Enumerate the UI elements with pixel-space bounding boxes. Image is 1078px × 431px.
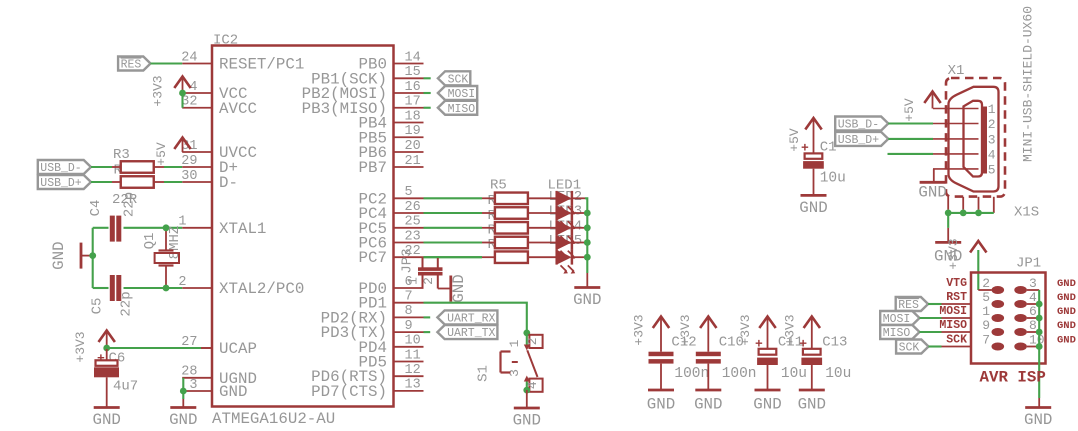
JP1 pin 9 MISO: [939, 318, 1004, 336]
svg-text:USB_D+: USB_D+: [838, 134, 880, 147]
svg-text:VTG: VTG: [946, 277, 967, 290]
ground GND at C13: [799, 389, 825, 392]
junction XTAL2: [163, 285, 170, 292]
svg-text:1: 1: [406, 277, 421, 285]
junction XTAL1: [163, 224, 170, 231]
IC2 pin 2 XTAL2/PC0: [178, 275, 304, 298]
svg-text:PD7(CTS): PD7(CTS): [311, 383, 387, 401]
junction VCC: [179, 90, 186, 97]
junction X1S 2: [960, 210, 967, 217]
svg-text:100n: 100n: [674, 366, 709, 382]
wire MISO: [424, 107, 431, 109]
ground GND at JP1: [1025, 406, 1051, 409]
svg-text:22p: 22p: [121, 192, 137, 217]
svg-text:JP3: JP3: [400, 248, 416, 273]
IC2 pin 31 UVCC: [181, 139, 257, 162]
svg-text:3: 3: [1029, 276, 1037, 291]
junction UCAP: [103, 345, 110, 352]
wire LED cathode bus: [585, 198, 587, 287]
wire MOSI: [424, 92, 431, 94]
svg-text:15: 15: [405, 65, 421, 80]
supply +3V3 at VCC: [151, 75, 191, 106]
svg-text:+5V: +5V: [787, 128, 802, 152]
svg-text:10: 10: [405, 334, 421, 349]
svg-text:C4: C4: [88, 200, 104, 217]
connector X1 dashed boundary: [946, 78, 1005, 197]
JP1 pin 1 MOSI: [939, 304, 1004, 322]
supply +3V3 at C12: [632, 314, 670, 345]
svg-text:USB_D-: USB_D-: [838, 119, 879, 132]
supply +3V3 at UCAP: [73, 331, 115, 363]
LED LED3: [557, 220, 585, 244]
wire pin to R8: [424, 241, 495, 243]
IC2 pin 18 PB4: [359, 109, 424, 132]
svg-text:GND: GND: [647, 396, 675, 414]
svg-text:8: 8: [405, 304, 413, 319]
connector X1 inner shell: [964, 101, 983, 177]
svg-text:5: 5: [988, 162, 996, 177]
wire USB_D- to R3: [91, 166, 112, 168]
svg-text:SCK: SCK: [448, 73, 469, 86]
resistor R8: [495, 237, 528, 249]
svg-text:UART_RX: UART_RX: [447, 312, 495, 325]
svg-text:7: 7: [405, 290, 413, 305]
wire pin to R6: [424, 212, 495, 214]
svg-text:29: 29: [181, 154, 197, 169]
X1 pin 4: [933, 147, 996, 162]
svg-text:GND: GND: [1024, 411, 1052, 426]
svg-text:SCK: SCK: [899, 342, 920, 355]
ground GND at C11: [755, 389, 781, 392]
svg-text:7: 7: [982, 333, 990, 348]
wire R9 to LED5: [528, 256, 557, 258]
svg-text:GND: GND: [50, 241, 68, 269]
wire SCK to JP1: [929, 345, 942, 347]
svg-text:10u: 10u: [825, 366, 851, 382]
wire SCK: [424, 77, 431, 79]
wire MOSI to JP1: [920, 317, 942, 319]
IC2 pin 4 VCC: [182, 80, 247, 103]
IC2 pin 7 PD1: [359, 290, 424, 313]
net flag MOSI at JP1: [880, 311, 919, 325]
supply +3V3 at C10: [678, 314, 717, 345]
svg-text:17: 17: [405, 95, 421, 110]
svg-text:14: 14: [405, 50, 421, 65]
svg-text:PB7: PB7: [359, 159, 387, 177]
svg-text:12: 12: [405, 363, 421, 378]
wire XTAL2 row right: [124, 287, 183, 289]
svg-text:MISO: MISO: [883, 327, 911, 340]
svg-text:USB_D-: USB_D-: [40, 162, 81, 175]
svg-text:26: 26: [405, 200, 421, 215]
svg-text:R5: R5: [490, 177, 507, 193]
LED LED5: [557, 250, 585, 274]
junction JP1 GND bus: [1036, 301, 1043, 308]
svg-text:XTAL1: XTAL1: [219, 220, 266, 238]
supply +3V3 at C11: [738, 314, 776, 345]
svg-text:C13: C13: [822, 335, 847, 351]
junction GND pin: [180, 388, 187, 395]
junction S1 bottom: [523, 387, 530, 394]
svg-text:RST: RST: [946, 291, 967, 304]
junction S1 top: [523, 330, 530, 337]
supply +3V3 at JP1: [946, 238, 987, 269]
IC2 pin 25 PC5: [359, 215, 424, 238]
svg-text:13: 13: [405, 378, 421, 393]
wire +3V3 to JP1 VTG: [978, 250, 991, 290]
wire R7 to LED3: [528, 227, 557, 229]
wire UART_TX: [424, 331, 431, 333]
wire pin to R7: [424, 227, 495, 229]
resistor R3: [112, 147, 154, 173]
crystal Q1: [142, 226, 183, 287]
net flag SCK at JP1: [896, 340, 928, 354]
svg-text:RESET/PC1: RESET/PC1: [219, 56, 304, 74]
IC2 pin 29 D+: [181, 154, 238, 177]
X1 pin 2: [933, 117, 996, 132]
svg-text:MINI-USB-SHIELD-UX60: MINI-USB-SHIELD-UX60: [1020, 6, 1035, 162]
ground GND at LEDs: [574, 286, 600, 289]
IC2 pin 3 GND: [182, 378, 247, 401]
svg-text:+3V3: +3V3: [678, 314, 693, 345]
ground GND at C1: [801, 194, 827, 197]
IC2 pin 9 PD3(TX): [321, 319, 424, 342]
wire USB_D+ to X1 pin3: [888, 138, 933, 140]
svg-text:AVCC: AVCC: [219, 100, 257, 118]
svg-text:GND: GND: [1057, 320, 1076, 332]
capacitor C12: [649, 318, 710, 390]
net flag USB_D- right: [835, 117, 888, 131]
junction JP1 GND bus: [1036, 329, 1043, 336]
LED LED2: [557, 206, 585, 230]
IC2 pin 28 UGND: [181, 365, 257, 388]
capacitor C6: [94, 349, 138, 408]
resistor R6: [495, 207, 528, 219]
junction JP1 GND bus: [1036, 343, 1043, 350]
svg-text:32: 32: [181, 95, 197, 110]
wire pin to R5: [424, 197, 495, 199]
ground GND at crystal: [50, 241, 93, 269]
svg-text:+5V: +5V: [154, 142, 169, 166]
ground GND at X1S: [935, 241, 961, 244]
supply +5V at UVCC: [154, 138, 191, 166]
net flag MISO at JP1: [880, 325, 919, 339]
JP1 pin 8 GND: [1014, 318, 1076, 336]
IC2 pin 12 PD6(RTS): [311, 363, 423, 386]
JP1 pin 10 GND: [1014, 333, 1076, 351]
IC2 pin 11 PD5: [359, 348, 424, 371]
svg-text:21: 21: [405, 154, 421, 169]
IC2 pin 14 PB0: [359, 50, 424, 73]
capacitor C11: [755, 318, 807, 390]
svg-text:AVR ISP: AVR ISP: [980, 369, 1046, 387]
junction LED cathode: [584, 239, 591, 246]
net flag MISO: [438, 101, 477, 115]
wire USB_D+ to R4: [91, 181, 112, 183]
X1 pin 1: [933, 102, 996, 117]
wire left vertical: [92, 228, 94, 288]
IC2 pin 5 PC2: [359, 185, 424, 208]
wire UART_RX: [424, 316, 431, 318]
net flag UART_RX: [437, 310, 497, 324]
svg-text:1: 1: [982, 304, 990, 319]
wire UCAP: [107, 347, 212, 349]
wire UGND jog: [182, 378, 184, 408]
svg-text:GND: GND: [573, 291, 601, 309]
svg-text:11: 11: [405, 348, 421, 363]
wire X1S to GND: [947, 213, 949, 243]
ground GND at C6: [94, 406, 120, 409]
ground GND at IC: [170, 406, 196, 409]
svg-text:GND: GND: [513, 412, 541, 427]
net flag USB_D+ left: [38, 175, 91, 189]
JP1 pin 2 VTG: [946, 276, 1004, 294]
svg-text:XTAL2/PC0: XTAL2/PC0: [219, 280, 304, 298]
svg-text:2: 2: [988, 117, 996, 132]
svg-text:2: 2: [982, 276, 990, 291]
IC2 pin 15 PB1(SCK): [311, 65, 423, 88]
svg-text:ATMEGA16U2-AU: ATMEGA16U2-AU: [212, 410, 335, 426]
resistor R9: [495, 251, 528, 263]
IC2 pin 13 PD7(CTS): [311, 378, 423, 401]
junction crystal gnd: [89, 252, 96, 259]
svg-text:X1: X1: [948, 63, 965, 79]
svg-text:UCAP: UCAP: [219, 340, 257, 358]
ground GND at JP3: [449, 276, 452, 302]
svg-text:3: 3: [189, 378, 197, 393]
JP1 pin 3 GND: [1014, 276, 1076, 294]
IC2 pin 24 RESET/PC1: [181, 50, 304, 73]
wire X1 pin5 to GND: [933, 169, 935, 182]
net flag USB_D+ right: [835, 132, 888, 146]
svg-text:+3V3: +3V3: [632, 314, 647, 345]
wire VCC to AVCC: [181, 92, 183, 108]
LED LED1: [557, 191, 585, 215]
ground GND at C10: [695, 389, 721, 392]
wire C5 left: [93, 287, 109, 289]
jumper JP3: [400, 248, 450, 288]
wire XTAL1 row: [124, 227, 183, 229]
svg-text:+5V: +5V: [902, 98, 917, 122]
svg-text:GND: GND: [219, 383, 247, 401]
svg-text:+3V3: +3V3: [738, 314, 753, 345]
ground GND at C12: [648, 389, 674, 392]
junction X1S 1: [945, 210, 952, 217]
svg-text:6: 6: [1029, 304, 1037, 319]
net flag RES: [118, 57, 150, 72]
svg-text:GND: GND: [1057, 306, 1076, 318]
svg-text:+3V3: +3V3: [151, 75, 166, 106]
capacitor C10: [696, 318, 757, 390]
wire X1S bus: [948, 212, 994, 214]
junction LED cathode: [584, 254, 591, 261]
svg-text:GND: GND: [92, 411, 120, 426]
connector X1 labels: [948, 6, 1036, 162]
svg-text:3: 3: [988, 132, 996, 147]
IC IC2 ATMEGA16U2 body: [212, 33, 394, 407]
svg-text:20: 20: [405, 139, 421, 154]
X1 pin 3: [933, 132, 996, 147]
IC2 pin 32 AVCC: [181, 95, 257, 118]
svg-text:18: 18: [405, 109, 421, 124]
svg-text:IC2: IC2: [213, 33, 238, 49]
wire R3 to pin29: [153, 166, 182, 168]
IC2 pin 16 PB2(MOSI): [302, 80, 424, 103]
IC2 pin 30 D-: [181, 169, 238, 192]
IC2 pin 20 PB6: [359, 139, 424, 162]
svg-text:1: 1: [507, 339, 522, 347]
wire pin7 to S1: [424, 303, 527, 345]
header JP1 body: [971, 256, 1046, 364]
IC2 pin 21 PB7: [359, 154, 424, 177]
svg-text:4u7: 4u7: [113, 379, 138, 395]
IC2 pin 1 XTAL1: [178, 215, 266, 238]
junction JP1 GND bus: [1036, 315, 1043, 322]
resistor R7: [495, 222, 528, 234]
connector X1 outer shell: [949, 87, 999, 192]
svg-text:4: 4: [988, 147, 996, 162]
JP1 pin 5 RST: [942, 290, 1005, 308]
svg-text:C5: C5: [90, 298, 106, 315]
svg-text:SCK: SCK: [946, 334, 967, 347]
ground GND at X1 pin5: [920, 181, 946, 184]
IC2 pin 27 UCAP: [181, 335, 257, 358]
svg-text:9: 9: [982, 318, 990, 333]
svg-text:9: 9: [405, 319, 413, 334]
svg-text:+3V3: +3V3: [73, 331, 88, 362]
JP1 pin 6 GND: [1014, 304, 1076, 322]
wire pin to R9: [424, 256, 495, 258]
capacitor C1: [801, 120, 846, 196]
svg-text:S1: S1: [476, 365, 492, 382]
net flag USB_D- left: [38, 160, 91, 174]
svg-text:8: 8: [1029, 318, 1037, 333]
supply +5V at X1: [902, 92, 941, 122]
svg-text:UART_TX: UART_TX: [447, 327, 495, 340]
resistor R4: [112, 176, 154, 188]
svg-text:GND: GND: [1057, 278, 1076, 290]
wire R4 to pin30: [153, 181, 182, 183]
wire RES to JP1: [928, 303, 941, 305]
svg-text:10u: 10u: [781, 366, 807, 382]
svg-text:23: 23: [405, 229, 421, 244]
wire C4 left: [93, 227, 109, 229]
connector X1 tongue: [983, 107, 987, 174]
IC2 pin 26 PC4: [359, 200, 424, 223]
svg-text:16: 16: [405, 80, 421, 95]
svg-text:GND: GND: [918, 183, 946, 201]
svg-text:5: 5: [982, 290, 990, 305]
X1 shield pads X1S: [948, 197, 1039, 221]
wire USB_D- to X1 pin2: [888, 122, 933, 124]
LED LED4: [557, 235, 585, 259]
svg-text:24: 24: [181, 50, 197, 65]
JP1 pin 4 GND: [1014, 290, 1076, 308]
wire R8 to LED4: [528, 242, 557, 244]
capacitor C13: [799, 318, 851, 390]
switch S1: [476, 335, 543, 392]
svg-text:1: 1: [988, 102, 996, 117]
junction LED cathode: [584, 224, 591, 231]
wire R6 to LED2: [528, 212, 557, 214]
resistor R5: [495, 193, 528, 205]
junction X1S 3: [975, 210, 982, 217]
svg-text:USB_D+: USB_D+: [40, 177, 82, 190]
svg-text:JP1: JP1: [1016, 256, 1041, 272]
svg-text:30: 30: [181, 169, 197, 184]
supply +3V3 at C13: [783, 314, 821, 345]
ground GND at S1: [513, 390, 541, 429]
svg-text:PC7: PC7: [359, 249, 387, 267]
svg-text:Q1: Q1: [142, 233, 158, 250]
svg-text:2: 2: [525, 337, 540, 345]
svg-text:GND: GND: [1057, 292, 1076, 304]
svg-text:GND: GND: [450, 274, 468, 302]
IC2 pin 22 PC7: [359, 244, 424, 267]
net flag SCK: [438, 71, 470, 85]
svg-text:+3V3: +3V3: [783, 314, 798, 345]
IC2 pin 19 PB5: [359, 124, 424, 147]
net flag RES at JP1: [896, 297, 928, 311]
wire MISO to JP1: [920, 331, 942, 333]
svg-text:GND: GND: [169, 411, 197, 426]
svg-text:10u: 10u: [820, 171, 846, 187]
IC2 pin 8 PD2(RX): [321, 304, 424, 327]
svg-text:RES: RES: [121, 59, 142, 72]
svg-text:X1S: X1S: [1014, 205, 1039, 221]
IC2 pin 23 PC6: [359, 229, 424, 252]
svg-text:4: 4: [1029, 290, 1037, 305]
JP1 pin 7 SCK: [942, 333, 1005, 351]
svg-text:GND: GND: [1057, 335, 1076, 347]
wire R5 to LED1: [528, 197, 557, 199]
svg-text:MOSI: MOSI: [448, 88, 476, 101]
svg-text:8MHZ: 8MHZ: [167, 226, 183, 260]
IC2 pin 6 PD0: [359, 275, 424, 298]
capacitor C5: [90, 275, 135, 317]
svg-text:MOSI: MOSI: [939, 305, 967, 318]
capacitor C4: [88, 192, 137, 242]
wire X1 pin4 stub: [888, 153, 934, 155]
svg-text:GND: GND: [694, 396, 722, 414]
wire pin22 to JP3: [424, 256, 483, 258]
junction LED cathode: [584, 210, 591, 217]
svg-text:MISO: MISO: [448, 103, 476, 116]
svg-text:MISO: MISO: [939, 319, 967, 332]
IC2 pin 17 PB3(MISO): [302, 95, 424, 118]
wire RES to pin24: [151, 62, 183, 64]
wire JP1 GND bus: [1038, 290, 1040, 407]
svg-text:19: 19: [405, 124, 421, 139]
net flag UART_TX: [437, 325, 497, 339]
X1 pin 5: [933, 162, 996, 177]
svg-text:+3V3: +3V3: [946, 238, 961, 269]
net flag MOSI: [438, 86, 477, 100]
supply +5V at C1: [787, 118, 822, 152]
svg-text:GND: GND: [753, 396, 781, 414]
svg-text:100n: 100n: [722, 366, 757, 382]
svg-text:D-: D-: [219, 174, 238, 192]
svg-text:5: 5: [405, 185, 413, 200]
svg-text:GND: GND: [798, 396, 826, 414]
svg-text:25: 25: [405, 215, 421, 230]
IC2 pin 10 PD4: [359, 334, 424, 357]
svg-text:GND: GND: [799, 199, 827, 217]
